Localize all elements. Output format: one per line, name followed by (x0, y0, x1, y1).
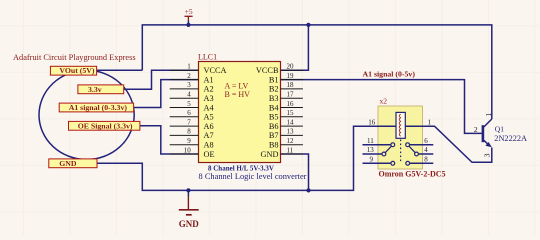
svg-text:12: 12 (287, 137, 295, 145)
svg-text:2N2222A: 2N2222A (494, 134, 527, 143)
svg-text:3: 3 (187, 81, 191, 89)
svg-text:A2: A2 (204, 85, 214, 94)
svg-text:8: 8 (187, 128, 191, 136)
svg-text:A1 signal (0-5v): A1 signal (0-5v) (363, 70, 416, 79)
svg-text:A1 signal (0-3.3v): A1 signal (0-3.3v) (69, 103, 128, 112)
svg-text:Adafruit Circuit Playground Ex: Adafruit Circuit Playground Express (13, 53, 136, 62)
svg-text:19: 19 (287, 72, 295, 80)
svg-text:B5: B5 (269, 113, 279, 122)
svg-text:B2: B2 (269, 85, 279, 94)
svg-text:13: 13 (287, 128, 295, 136)
svg-text:B8: B8 (269, 141, 279, 150)
svg-text:B6: B6 (269, 122, 279, 131)
svg-text:16: 16 (368, 119, 376, 127)
svg-text:3: 3 (483, 153, 492, 157)
svg-text:VCCA: VCCA (204, 66, 227, 75)
svg-text:1: 1 (484, 113, 493, 117)
svg-text:Omron G5V-2-DC5: Omron G5V-2-DC5 (379, 170, 446, 179)
svg-text:GND: GND (59, 159, 77, 168)
svg-text:4: 4 (424, 146, 428, 154)
svg-text:8: 8 (424, 156, 428, 164)
svg-text:x2: x2 (380, 97, 388, 106)
svg-text:B3: B3 (269, 94, 279, 103)
svg-text:GND: GND (261, 150, 279, 159)
svg-text:11: 11 (367, 137, 374, 145)
svg-text:A3: A3 (204, 94, 214, 103)
svg-text:4: 4 (187, 91, 191, 99)
svg-text:A4: A4 (204, 103, 215, 112)
svg-text:A8: A8 (204, 141, 214, 150)
svg-text:18: 18 (287, 81, 295, 89)
svg-text:17: 17 (287, 91, 295, 99)
svg-text:A5: A5 (204, 113, 214, 122)
svg-text:6: 6 (424, 137, 428, 145)
svg-text:7: 7 (187, 118, 191, 126)
svg-text:10: 10 (184, 146, 192, 154)
svg-text:Q1: Q1 (495, 125, 504, 134)
svg-text:LLC1: LLC1 (198, 53, 217, 62)
svg-text:1: 1 (187, 63, 191, 71)
svg-text:B1: B1 (269, 75, 279, 84)
svg-text:9: 9 (187, 137, 191, 145)
svg-text:OE: OE (204, 150, 215, 159)
svg-text:A7: A7 (204, 131, 214, 140)
svg-text:11: 11 (287, 146, 294, 154)
svg-text:8 Channel Logic level converte: 8 Channel Logic level converter (199, 172, 307, 181)
svg-text:A6: A6 (204, 122, 214, 131)
svg-text:13: 13 (367, 146, 375, 154)
svg-text:GND: GND (179, 219, 200, 229)
svg-text:A1: A1 (204, 75, 214, 84)
svg-text:1: 1 (428, 118, 432, 126)
svg-text:+5: +5 (185, 7, 193, 16)
svg-text:9: 9 (370, 156, 374, 164)
svg-text:OE Signal (3.3v): OE Signal (3.3v) (78, 122, 133, 131)
svg-text:2: 2 (474, 125, 478, 134)
svg-text:20: 20 (287, 63, 295, 71)
svg-text:14: 14 (287, 118, 295, 126)
svg-text:VOut (5V): VOut (5V) (59, 66, 95, 75)
svg-text:15: 15 (287, 109, 295, 117)
svg-text:3.3v: 3.3v (88, 85, 102, 94)
svg-text:6: 6 (187, 109, 191, 117)
svg-text:B7: B7 (269, 131, 279, 140)
svg-text:16: 16 (287, 100, 295, 108)
svg-text:B4: B4 (269, 103, 280, 112)
svg-text:5: 5 (187, 100, 191, 108)
svg-text:B = HV: B = HV (225, 90, 251, 99)
svg-text:2: 2 (187, 72, 191, 80)
svg-text:VCCB: VCCB (256, 66, 279, 75)
